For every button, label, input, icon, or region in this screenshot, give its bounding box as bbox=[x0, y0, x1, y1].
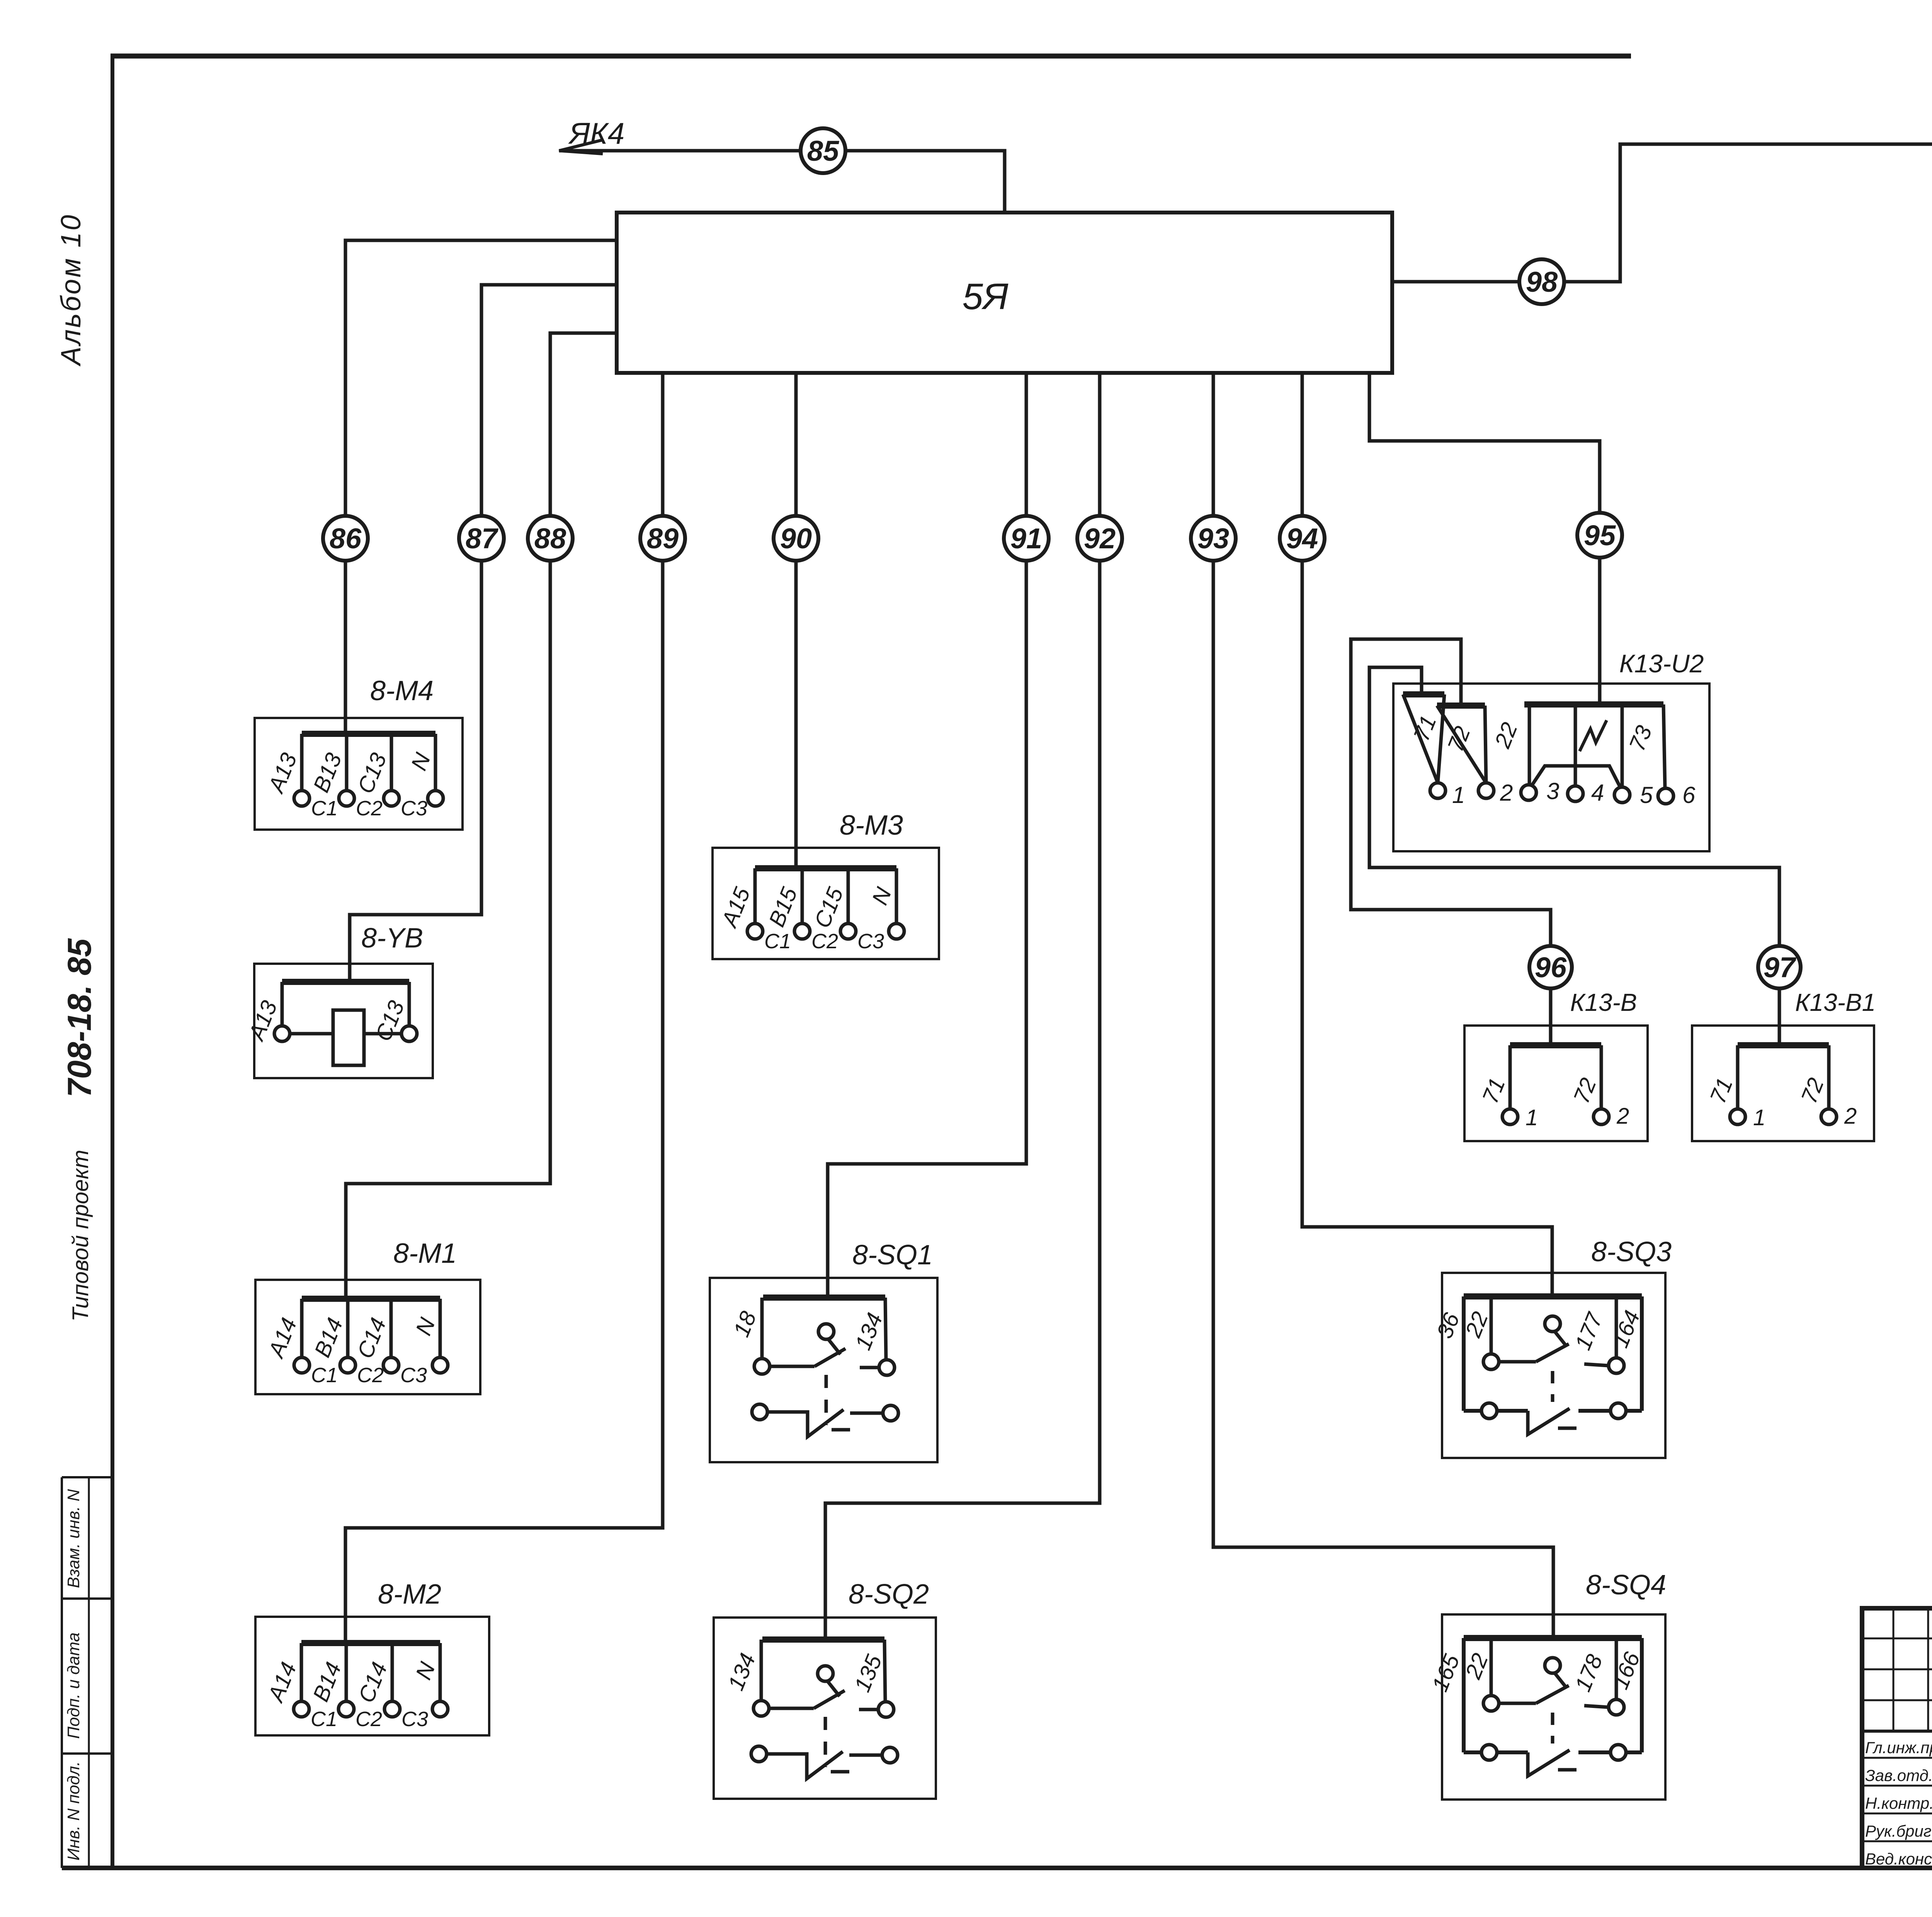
svg-text:Подп. и дата: Подп. и дата bbox=[64, 1633, 83, 1739]
svg-text:2: 2 bbox=[1616, 1104, 1629, 1129]
svg-text:С2: С2 bbox=[811, 930, 838, 953]
svg-text:8-М3: 8-М3 bbox=[840, 810, 903, 841]
svg-text:8-SQ2: 8-SQ2 bbox=[849, 1579, 929, 1610]
svg-text:С2: С2 bbox=[355, 1708, 382, 1731]
svg-text:6: 6 bbox=[1682, 782, 1696, 808]
svg-text:94: 94 bbox=[1286, 522, 1318, 555]
svg-text:97: 97 bbox=[1764, 951, 1797, 983]
svg-text:К13-U2: К13-U2 bbox=[1619, 649, 1704, 678]
svg-text:С3: С3 bbox=[857, 930, 884, 953]
svg-text:1: 1 bbox=[1526, 1105, 1538, 1130]
svg-text:92: 92 bbox=[1084, 522, 1116, 555]
svg-text:С2: С2 bbox=[357, 1364, 384, 1387]
svg-text:91: 91 bbox=[1010, 522, 1042, 555]
svg-text:1: 1 bbox=[1753, 1105, 1765, 1130]
svg-text:8-SQ1: 8-SQ1 bbox=[852, 1240, 933, 1271]
svg-text:5: 5 bbox=[1640, 782, 1653, 808]
svg-text:8-М2: 8-М2 bbox=[378, 1579, 441, 1610]
svg-text:К13-В: К13-В bbox=[1570, 988, 1637, 1016]
svg-text:88: 88 bbox=[534, 522, 566, 555]
svg-text:90: 90 bbox=[780, 522, 812, 555]
svg-text:8-М4: 8-М4 bbox=[370, 675, 434, 706]
svg-text:С1: С1 bbox=[311, 1708, 337, 1731]
svg-text:93: 93 bbox=[1197, 522, 1229, 555]
svg-text:Взам. инв. N: Взам. инв. N bbox=[64, 1489, 83, 1588]
svg-text:Альбом 10: Альбом 10 bbox=[56, 214, 87, 367]
svg-text:С3: С3 bbox=[401, 1708, 428, 1731]
svg-text:98: 98 bbox=[1526, 266, 1558, 298]
svg-text:89: 89 bbox=[647, 522, 679, 555]
svg-text:Типовой проект: Типовой проект bbox=[68, 1150, 93, 1322]
svg-text:5Я: 5Я bbox=[963, 276, 1009, 317]
svg-text:95: 95 bbox=[1584, 519, 1616, 551]
svg-text:86: 86 bbox=[330, 522, 362, 555]
svg-text:3: 3 bbox=[1546, 778, 1559, 804]
svg-text:Гл.инж.пр: Гл.инж.пр bbox=[1865, 1738, 1932, 1757]
svg-text:8-SQ4: 8-SQ4 bbox=[1586, 1570, 1666, 1601]
svg-text:8-SQ3: 8-SQ3 bbox=[1591, 1237, 1672, 1267]
svg-text:1: 1 bbox=[1452, 782, 1465, 808]
svg-text:К13-В1: К13-В1 bbox=[1795, 988, 1876, 1016]
svg-text:8-М1: 8-М1 bbox=[393, 1238, 457, 1269]
svg-text:87: 87 bbox=[466, 522, 499, 555]
svg-text:Инв. N подл.: Инв. N подл. bbox=[64, 1761, 83, 1861]
svg-text:Зав.отд.: Зав.отд. bbox=[1865, 1766, 1932, 1784]
svg-text:С3: С3 bbox=[400, 1364, 427, 1387]
svg-text:96: 96 bbox=[1535, 951, 1567, 983]
svg-text:С3: С3 bbox=[401, 797, 427, 820]
svg-text:Н.контр.: Н.контр. bbox=[1865, 1794, 1932, 1812]
svg-text:С1: С1 bbox=[311, 797, 338, 820]
svg-text:85: 85 bbox=[807, 135, 840, 167]
svg-text:Рук.бриг: Рук.бриг bbox=[1865, 1822, 1932, 1840]
svg-text:708-18. 85: 708-18. 85 bbox=[61, 938, 98, 1097]
svg-text:С1: С1 bbox=[764, 930, 791, 953]
svg-text:ЯК4: ЯК4 bbox=[568, 116, 625, 150]
svg-text:С2: С2 bbox=[356, 797, 383, 820]
svg-text:4: 4 bbox=[1591, 780, 1604, 806]
svg-text:2: 2 bbox=[1500, 780, 1513, 806]
svg-text:Вед.констр: Вед.констр bbox=[1865, 1850, 1932, 1868]
svg-text:8-YB: 8-YB bbox=[361, 923, 423, 954]
svg-text:С1: С1 bbox=[311, 1364, 338, 1387]
svg-text:2: 2 bbox=[1844, 1104, 1857, 1129]
